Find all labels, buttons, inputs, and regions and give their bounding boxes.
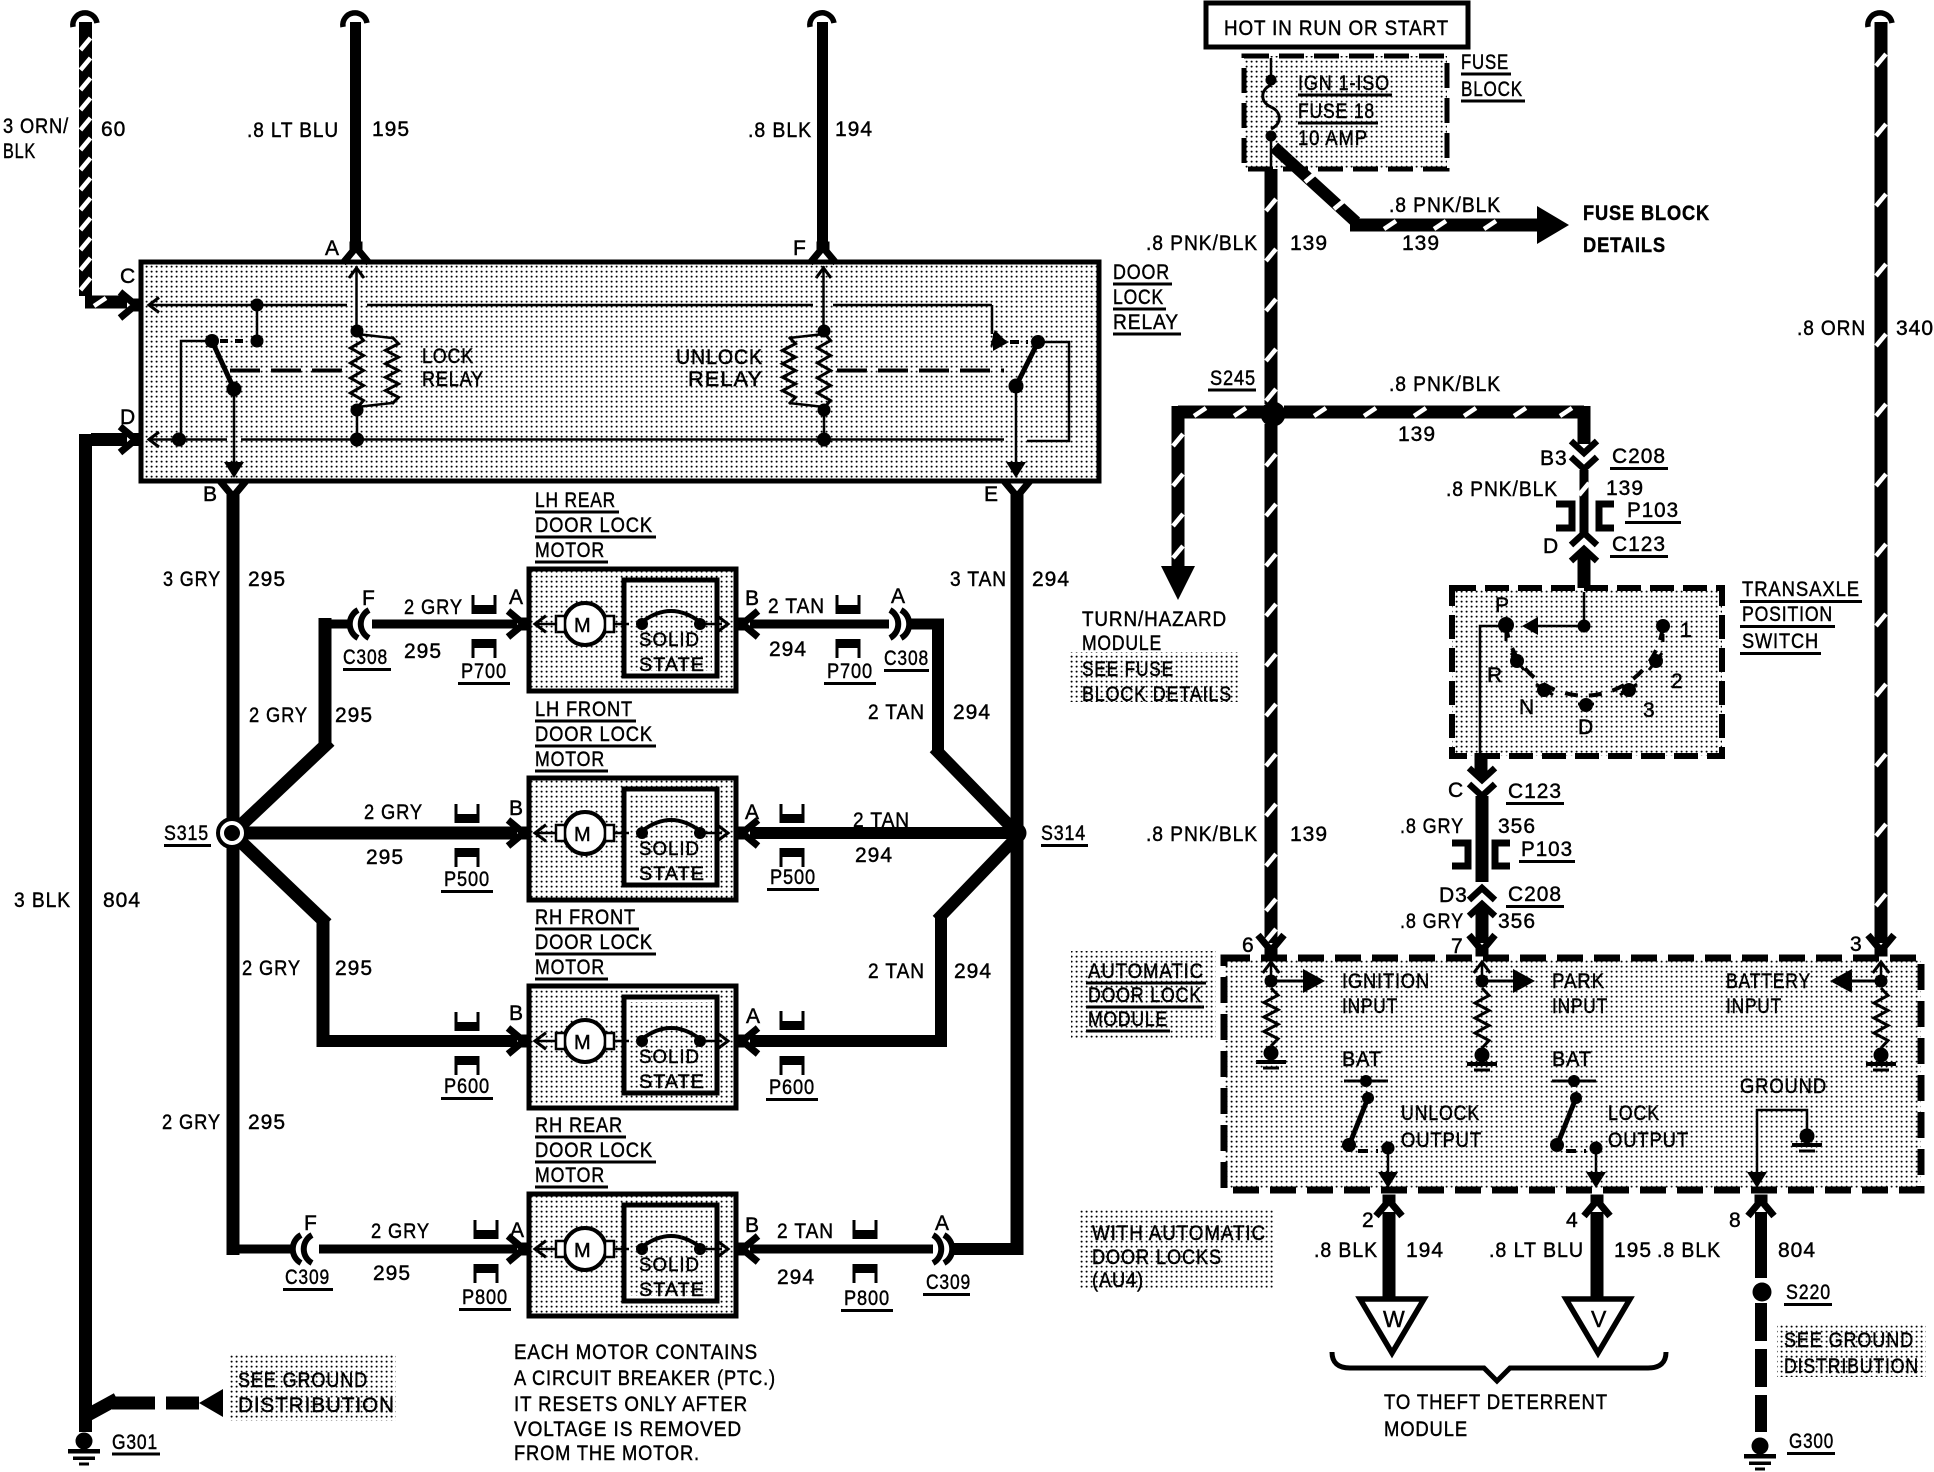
svg-text:294: 294: [1032, 568, 1070, 591]
label .8 PNK/BLK to details: [1389, 194, 1501, 217]
svg-text:F: F: [362, 587, 376, 610]
contact 3: [1620, 683, 1637, 697]
svg-text:LOCK: LOCK: [422, 345, 474, 368]
wire arm to pin B: [224, 396, 244, 478]
svg-text:BATTERY: BATTERY: [1726, 970, 1811, 993]
svg-text:SOLID: SOLID: [639, 1047, 700, 1068]
with automatic door locks box: [1078, 1208, 1275, 1289]
svg-text:.8 BLK: .8 BLK: [1314, 1239, 1378, 1262]
label UNLOCK OUTPUT: [1401, 1102, 1482, 1152]
label C309 left: [283, 1266, 333, 1290]
label 3 transaxle: [1643, 699, 1656, 722]
pin E connector: [1004, 481, 1030, 499]
svg-text:OUTPUT: OUTPUT: [1401, 1129, 1482, 1152]
label 60: [101, 118, 126, 141]
label pin 6: [1242, 934, 1255, 957]
label SOLID STATE RH front door lock motor (M3): [639, 1047, 705, 1093]
svg-text:RH REAR: RH REAR: [535, 1114, 623, 1137]
svg-text:S314: S314: [1041, 822, 1086, 845]
svg-text:C308: C308: [343, 646, 388, 669]
connector P700 right: [836, 595, 861, 658]
label A (C308 pin): [891, 585, 906, 608]
automatic door lock module box: [1224, 958, 1921, 1190]
svg-text:B: B: [745, 587, 760, 610]
solid state jumper RH rear door lock motor (M4): [636, 1236, 728, 1257]
label SEE GROUND DISTRIBUTION right: [1784, 1329, 1919, 1378]
svg-text:.8 GRY: .8 GRY: [1400, 815, 1464, 838]
label 2 GRY 295 on M4 branch: [162, 1111, 286, 1134]
off-page W: [1360, 1299, 1424, 1353]
label 1 transaxle: [1680, 619, 1693, 642]
label P600 right: [766, 1076, 818, 1100]
svg-text:295: 295: [335, 704, 373, 727]
svg-text:BLOCK: BLOCK: [1461, 78, 1523, 101]
svg-text:D3: D3: [1439, 884, 1468, 907]
svg-text:IGNITION: IGNITION: [1342, 970, 1430, 993]
motor box RH rear door lock motor (M4): [529, 1194, 736, 1316]
svg-text:WITH AUTOMATIC: WITH AUTOMATIC: [1092, 1222, 1266, 1245]
svg-text:295: 295: [335, 957, 373, 980]
svg-text:MODULE: MODULE: [1384, 1418, 1468, 1441]
svg-text:295: 295: [366, 846, 404, 869]
svg-text:HOT IN RUN OR START: HOT IN RUN OR START: [1224, 17, 1449, 40]
svg-text:C: C: [120, 265, 136, 288]
svg-text:7: 7: [1451, 935, 1464, 958]
svg-text:B: B: [203, 483, 218, 506]
connector P500 left: [455, 804, 480, 867]
svg-text:294: 294: [777, 1266, 815, 1289]
svg-text:C308: C308: [884, 647, 929, 670]
connector C123 pin D: [1571, 533, 1597, 561]
svg-text:294: 294: [954, 960, 992, 983]
svg-text:STATE: STATE: [639, 1280, 705, 1301]
svg-text:MOTOR: MOTOR: [535, 748, 605, 771]
connector P800 right: [853, 1220, 878, 1283]
wire D bus (internal): [150, 438, 1004, 441]
wire 3 GRY 295 left bus: [227, 500, 292, 1255]
svg-text:.8 PNK/BLK: .8 PNK/BLK: [1446, 478, 1558, 501]
connector P500 right: [780, 804, 805, 867]
svg-text:M: M: [574, 824, 592, 846]
label IGN 1-ISO: [1298, 72, 1392, 95]
label D3: [1439, 884, 1468, 907]
label C309 right: [923, 1271, 971, 1295]
connector M2 pin A flare: [740, 820, 758, 846]
svg-text:6: 6: [1242, 934, 1255, 957]
connector module pin 6: [1258, 935, 1284, 953]
splice S220: [1753, 1283, 1772, 1302]
module ground circuit: [1747, 1110, 1822, 1188]
svg-text:P800: P800: [462, 1286, 508, 1309]
label 2 GRY 295 on M3 branch: [242, 957, 373, 980]
svg-text:A: A: [509, 586, 524, 609]
svg-text:2 GRY: 2 GRY: [162, 1111, 221, 1134]
label BATTERY INPUT: [1726, 970, 1811, 1018]
pin B connector: [220, 481, 246, 499]
svg-text:EACH MOTOR CONTAINS: EACH MOTOR CONTAINS: [514, 1341, 758, 1364]
label 139 pin6: [1290, 823, 1328, 846]
label S245: [1208, 367, 1256, 390]
motor symbol M RH front door lock motor (M3): [535, 1020, 629, 1062]
label 2 GRY M1: [404, 596, 463, 619]
wire pivot to D bus: [172, 341, 212, 447]
label .8 BLK pin2: [1314, 1239, 1378, 1262]
label HOT IN RUN OR START: [1224, 17, 1449, 40]
wire 3 TAN 294 right bus: [954, 500, 1023, 1255]
label P800 left: [459, 1286, 511, 1310]
wire .8 LT BLU 195: [343, 13, 367, 248]
label S314: [1041, 822, 1088, 846]
wire unlock output to pin 2: [1378, 1153, 1398, 1188]
svg-text:C309: C309: [926, 1271, 971, 1294]
svg-text:SOLID: SOLID: [639, 630, 700, 651]
label 2 TAN M1: [768, 595, 825, 618]
pin A connector: [343, 245, 369, 330]
label 10 AMP: [1298, 127, 1368, 150]
wire .8 ORN 340: [1868, 13, 1892, 943]
label PARK INPUT: [1552, 970, 1608, 1018]
svg-text:195: 195: [372, 118, 410, 141]
svg-text:3 TAN: 3 TAN: [950, 568, 1007, 591]
label LOCK OUTPUT: [1608, 1102, 1689, 1152]
svg-text:E: E: [984, 483, 999, 506]
wire S245 to C208 (.8 PNK/BLK 139): [1284, 406, 1584, 444]
ground G301: [68, 1433, 100, 1466]
label pin 3: [1850, 933, 1863, 956]
svg-text:D: D: [120, 406, 136, 429]
wire lock output to pin 4: [1586, 1153, 1606, 1188]
svg-text:SEE GROUND: SEE GROUND: [238, 1369, 368, 1392]
connector C308 right half: [890, 610, 909, 638]
svg-text:FROM THE MOTOR.: FROM THE MOTOR.: [514, 1442, 700, 1465]
label P103 lower: [1519, 838, 1575, 862]
svg-text:2 GRY: 2 GRY: [404, 596, 463, 619]
label D transaxle: [1578, 716, 1594, 739]
connector module pin 8: [1748, 1198, 1774, 1216]
svg-text:.8 PNK/BLK: .8 PNK/BLK: [1389, 194, 1501, 217]
wire P to pin C: [1480, 626, 1506, 753]
svg-text:RELAY: RELAY: [688, 368, 763, 391]
svg-text:P500: P500: [444, 868, 490, 891]
wire C123 to P103 lower: [1476, 796, 1489, 882]
ground G300: [1744, 1438, 1776, 1471]
svg-text:VOLTAGE IS REMOVED: VOLTAGE IS REMOVED: [514, 1418, 742, 1441]
unlock output switch: [1342, 1075, 1395, 1155]
svg-text:340: 340: [1896, 317, 1934, 340]
svg-text:.8 LT BLU: .8 LT BLU: [1489, 1239, 1584, 1262]
svg-text:D: D: [1543, 535, 1559, 558]
label .8 LT BLU pin4: [1489, 1239, 1584, 1262]
label 295 M2: [366, 846, 404, 869]
svg-text:MOTOR: MOTOR: [535, 956, 605, 979]
svg-text:DISTRIBUTION: DISTRIBUTION: [1784, 1355, 1919, 1378]
label pin B M3: [509, 1002, 524, 1025]
svg-text:DOOR LOCK: DOOR LOCK: [535, 931, 653, 954]
connector M4 pin A flare: [508, 1236, 526, 1262]
label pin 8: [1729, 1209, 1742, 1232]
svg-text:.8 LT BLU: .8 LT BLU: [247, 119, 339, 142]
resistor pin3: [1874, 988, 1888, 1048]
svg-text:A CIRCUIT BREAKER (PTC.): A CIRCUIT BREAKER (PTC.): [514, 1367, 776, 1390]
svg-text:139: 139: [1398, 423, 1436, 446]
solid state jumper LH front door lock motor (M2): [636, 820, 728, 841]
svg-text:294: 294: [953, 701, 991, 724]
node D-coil junction 1: [350, 433, 364, 447]
label 3 TAN: [950, 568, 1007, 591]
svg-text:356: 356: [1498, 815, 1536, 838]
label pin A M1: [509, 586, 524, 609]
label 294 right bus: [1032, 568, 1070, 591]
brace to theft deterrent: [1332, 1352, 1666, 1381]
label TRANSAXLE POSITION SWITCH: [1740, 578, 1862, 654]
label BAT lock: [1552, 1048, 1592, 1071]
label 2 TAN M4: [777, 1220, 834, 1243]
svg-text:SWITCH: SWITCH: [1742, 630, 1819, 653]
label .8 GRY lower: [1400, 910, 1464, 933]
solid state box RH rear door lock motor (M4): [624, 1205, 717, 1301]
svg-text:.8 BLK: .8 BLK: [1657, 1239, 1721, 1262]
wire S315 to M1 branch: [237, 618, 330, 829]
svg-text:GROUND: GROUND: [1740, 1075, 1827, 1098]
svg-text:2: 2: [1362, 1209, 1375, 1232]
resistor pin6: [1264, 988, 1278, 1046]
svg-text:294: 294: [855, 844, 893, 867]
label pin B: [203, 483, 218, 506]
contact N: [1536, 683, 1553, 697]
connector module pin 7: [1469, 935, 1495, 953]
svg-text:M: M: [574, 1032, 592, 1054]
svg-text:295: 295: [248, 1111, 286, 1134]
node C-line junction: [251, 299, 264, 312]
label pin D: [120, 406, 136, 429]
label N: [1519, 696, 1535, 719]
svg-text:IT RESETS ONLY AFTER: IT RESETS ONLY AFTER: [514, 1393, 748, 1416]
label FUSE BLOCK DETAILS: [1583, 202, 1710, 257]
unlock relay switch pivot: [1031, 335, 1045, 349]
svg-text:D: D: [1578, 716, 1594, 739]
label 2 TAN M3: [868, 960, 925, 983]
svg-text:TO THEFT DETERRENT: TO THEFT DETERRENT: [1384, 1391, 1608, 1414]
svg-text:RELAY: RELAY: [422, 368, 484, 391]
svg-text:BAT: BAT: [1342, 1048, 1382, 1071]
svg-text:139: 139: [1606, 477, 1644, 500]
motor symbol M LH front door lock motor (M2): [535, 812, 629, 854]
connector P600 right: [780, 1011, 805, 1075]
svg-text:INPUT: INPUT: [1342, 995, 1398, 1018]
connector P800 left: [474, 1220, 499, 1283]
svg-text:3: 3: [1643, 699, 1656, 722]
svg-text:139: 139: [1290, 232, 1328, 255]
label GROUND: [1740, 1075, 1827, 1098]
svg-text:DOOR LOCK: DOOR LOCK: [535, 514, 653, 537]
svg-text:.8 PNK/BLK: .8 PNK/BLK: [1146, 823, 1258, 846]
label 139 S245 right: [1398, 423, 1436, 446]
park input circuit: [1474, 962, 1535, 993]
connector M2 pin B flare: [508, 820, 526, 846]
wire S315 to M3 branch: [237, 838, 517, 1047]
see fuse block details box: [1070, 652, 1238, 702]
solid state box LH rear door lock motor (M1): [624, 580, 717, 676]
svg-text:194: 194: [835, 118, 873, 141]
label 340: [1896, 317, 1934, 340]
wire C bus (internal): [150, 305, 1009, 350]
label pin F: [793, 237, 807, 260]
svg-text:295: 295: [248, 568, 286, 591]
label 295 M4: [373, 1262, 411, 1285]
connector M3 pin A flare: [740, 1028, 758, 1054]
svg-text:C: C: [1448, 779, 1464, 802]
label 195 pin4: [1614, 1239, 1652, 1262]
see ground distribution box left: [229, 1354, 396, 1421]
connector P600 left: [455, 1012, 480, 1075]
svg-text:IGN 1-ISO: IGN 1-ISO: [1298, 72, 1390, 95]
label FUSE 18: [1298, 100, 1378, 123]
label pin A M2: [745, 801, 760, 824]
connector C309 right half: [933, 1235, 952, 1263]
label C208 lower: [1506, 883, 1564, 907]
label 295 left bus: [248, 568, 286, 591]
label A (C309 pin): [935, 1212, 950, 1235]
label SEE FUSE BLOCK DETAILS: [1082, 658, 1232, 706]
svg-text:LOCK: LOCK: [1608, 1102, 1660, 1125]
splice S314: [1006, 823, 1027, 844]
label RH front door lock motor (M3) title: [535, 906, 656, 979]
wire pin 8 to S220: [1755, 1212, 1767, 1278]
label RH rear door lock motor (M4) title: [535, 1114, 656, 1187]
svg-text:A: A: [891, 585, 906, 608]
label 2 TAN M2: [853, 809, 910, 832]
label 2 GRY M4: [371, 1220, 430, 1243]
label pin A M4: [510, 1219, 525, 1242]
fuse block box: [1244, 56, 1447, 169]
door lock relay box: [141, 262, 1099, 481]
label 294 M4: [777, 1266, 815, 1289]
label SOLID STATE RH rear door lock motor (M4): [639, 1255, 705, 1301]
svg-text:295: 295: [373, 1262, 411, 1285]
wire switch output: [1475, 753, 1488, 776]
svg-text:P600: P600: [769, 1076, 815, 1099]
svg-text:STATE: STATE: [639, 655, 705, 676]
connector C308 left half: [350, 610, 369, 638]
label SOLID STATE LH rear door lock motor (M1): [639, 630, 705, 676]
solid state jumper LH rear door lock motor (M1): [636, 611, 728, 632]
svg-text:FUSE BLOCK: FUSE BLOCK: [1583, 202, 1710, 225]
svg-text:S220: S220: [1786, 1281, 1831, 1304]
svg-text:RELAY: RELAY: [1113, 311, 1179, 334]
svg-text:P500: P500: [770, 866, 816, 889]
label .8 PNK/BLK at P103: [1446, 478, 1558, 501]
svg-text:194: 194: [1406, 1239, 1444, 1262]
label 139 to details: [1402, 232, 1440, 255]
svg-text:2 TAN: 2 TAN: [868, 960, 925, 983]
svg-text:F: F: [304, 1212, 318, 1235]
unlock relay switch arm: [1009, 342, 1039, 394]
svg-text:.8 BLK: .8 BLK: [748, 119, 812, 142]
svg-text:P600: P600: [444, 1075, 490, 1098]
svg-text:INPUT: INPUT: [1552, 995, 1608, 1018]
label .8 ORN: [1797, 317, 1866, 340]
svg-text:TRANSAXLE: TRANSAXLE: [1742, 578, 1860, 601]
label pin A M3: [746, 1005, 761, 1028]
label G300: [1787, 1430, 1835, 1454]
label S315: [164, 822, 211, 846]
motor symbol M RH rear door lock motor (M4): [535, 1228, 629, 1270]
label pin B M2: [509, 797, 524, 820]
label C123 lower: [1506, 780, 1564, 804]
wire pin 2 to W: [1383, 1212, 1396, 1299]
label .8 BLK pin8: [1657, 1239, 1721, 1262]
svg-text:S245: S245: [1210, 367, 1256, 390]
label SOLID STATE LH front door lock motor (M2): [639, 839, 705, 885]
connector M3 pin B flare: [508, 1028, 526, 1054]
svg-text:R: R: [1487, 664, 1503, 687]
unlock switch contact arrow: [993, 333, 1028, 351]
label 294 M1: [769, 638, 807, 661]
label 2 GRY M2: [364, 801, 423, 824]
label pin B M1: [745, 587, 760, 610]
svg-text:A: A: [746, 1005, 761, 1028]
svg-text:P800: P800: [844, 1287, 890, 1310]
transaxle position switch box: [1452, 588, 1722, 756]
svg-text:DOOR LOCK: DOOR LOCK: [535, 723, 653, 746]
fuse element IGN1 fuse 18: [1263, 58, 1280, 167]
wire S315 to M2: [244, 827, 517, 840]
connector module pin 4: [1584, 1198, 1610, 1216]
label 294 M2: [855, 844, 893, 867]
label pin B M4: [745, 1214, 760, 1237]
contact 2: [1649, 653, 1663, 670]
svg-text:BLOCK DETAILS: BLOCK DETAILS: [1082, 683, 1232, 706]
svg-text:LOCK: LOCK: [1113, 286, 1164, 309]
pin F connector: [810, 245, 836, 330]
wire 2 GRY 295 to M4: [319, 1245, 517, 1254]
label P103 upper: [1625, 499, 1681, 523]
label 356 upper: [1498, 815, 1536, 838]
contact 1: [1656, 619, 1670, 642]
svg-text:195: 195: [1614, 1239, 1652, 1262]
svg-text:G301: G301: [112, 1431, 158, 1454]
label FUSE BLOCK: [1461, 51, 1525, 101]
svg-text:V: V: [1591, 1306, 1607, 1332]
svg-text:2 GRY: 2 GRY: [249, 704, 308, 727]
label pin 4: [1566, 1209, 1579, 1232]
label TO THEFT DETERRENT MODULE: [1384, 1391, 1608, 1441]
svg-text:UNLOCK: UNLOCK: [676, 346, 763, 369]
svg-text:UNLOCK: UNLOCK: [1401, 1102, 1480, 1125]
svg-text:10 AMP: 10 AMP: [1298, 127, 1368, 150]
node lock switch contact: [251, 335, 264, 348]
svg-text:C309: C309: [285, 1266, 330, 1289]
label P600 left: [441, 1075, 493, 1099]
svg-text:3: 3: [1850, 933, 1863, 956]
svg-text:AUTOMATIC: AUTOMATIC: [1088, 960, 1204, 983]
label 356 lower: [1498, 910, 1536, 933]
ground pin6 internal: [1256, 1046, 1286, 1070]
svg-text:295: 295: [404, 640, 442, 663]
label LOCK RELAY: [422, 345, 484, 391]
label C123 upper: [1610, 533, 1668, 557]
wire M3 to S314: [750, 840, 1014, 1047]
svg-text:DISTRIBUTION: DISTRIBUTION: [238, 1394, 395, 1417]
connector P700 left: [472, 595, 497, 658]
label S220: [1784, 1281, 1832, 1305]
svg-text:FUSE 18: FUSE 18: [1298, 100, 1375, 123]
svg-text:DOOR LOCK: DOOR LOCK: [1088, 984, 1202, 1007]
pin D connector: [120, 427, 159, 453]
svg-text:MODULE: MODULE: [1088, 1008, 1168, 1031]
svg-text:A: A: [325, 237, 340, 260]
connector C309 left half: [293, 1235, 312, 1263]
